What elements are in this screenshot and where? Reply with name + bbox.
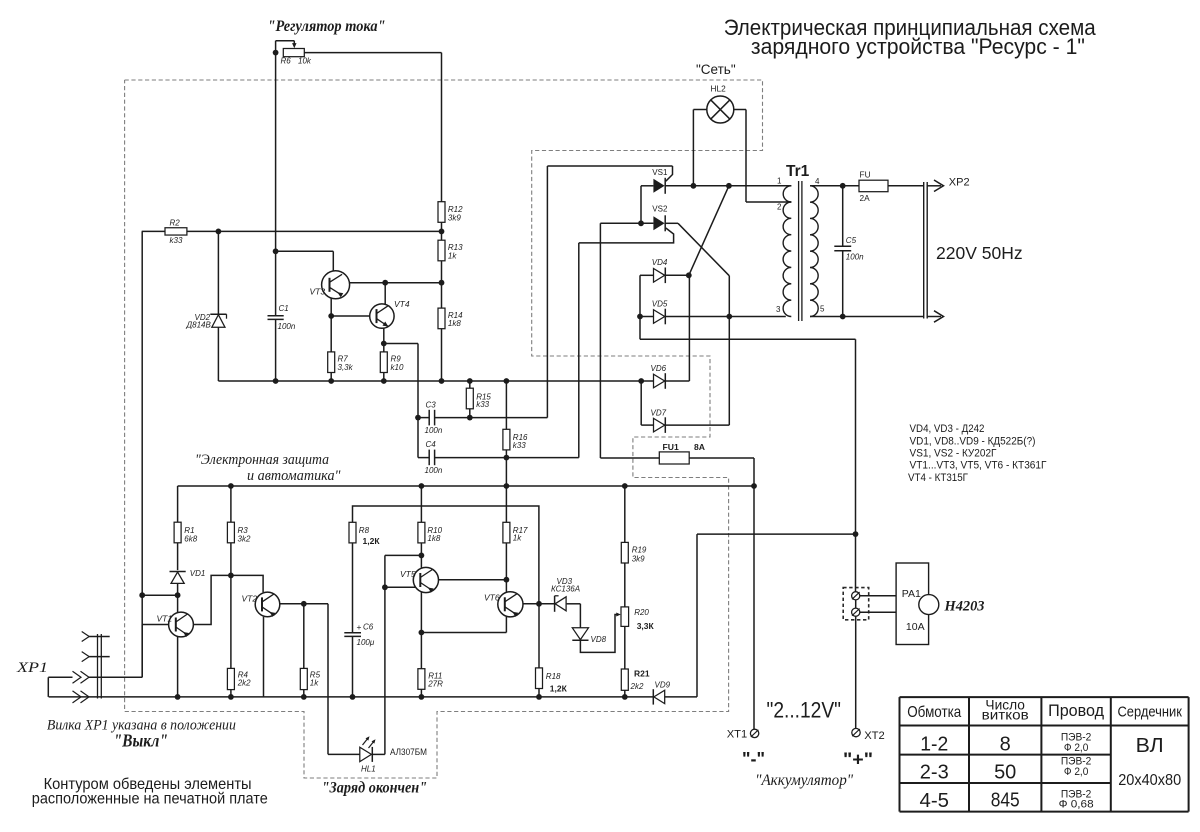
svg-text:C3: C3: [426, 400, 437, 409]
svg-text:VD5: VD5: [652, 299, 668, 308]
svg-text:Обмотка: Обмотка: [907, 704, 961, 721]
svg-text:R20: R20: [634, 608, 649, 617]
svg-text:расположенные на печатной плат: расположенные на печатной плате: [32, 790, 268, 807]
svg-text:1k: 1k: [448, 251, 457, 260]
svg-text:VT3: VT3: [310, 287, 326, 297]
svg-text:2-3: 2-3: [920, 762, 949, 784]
svg-text:3,3k: 3,3k: [338, 363, 354, 372]
svg-text:1,2К: 1,2К: [363, 536, 381, 546]
svg-text:VD4: VD4: [652, 258, 668, 267]
svg-text:1k8: 1k8: [448, 319, 461, 328]
svg-text:VT4: VT4: [394, 299, 410, 309]
svg-text:2k2: 2k2: [630, 682, 644, 691]
svg-text:FU1: FU1: [663, 442, 679, 452]
svg-text:VD6: VD6: [651, 364, 667, 373]
svg-text:R8: R8: [359, 526, 370, 535]
svg-text:1k: 1k: [513, 534, 522, 543]
svg-text:2: 2: [777, 203, 782, 212]
svg-text:845: 845: [991, 790, 1020, 812]
svg-text:27R: 27R: [427, 679, 443, 688]
svg-text:XP2: XP2: [949, 176, 970, 188]
svg-text:VS1, VS2 - КУ202Г: VS1, VS2 - КУ202Г: [910, 448, 997, 460]
svg-text:"Аккумулятор": "Аккумулятор": [755, 772, 853, 789]
svg-text:VD1: VD1: [190, 569, 206, 578]
svg-text:HL1: HL1: [361, 765, 376, 774]
svg-text:АЛ307БМ: АЛ307БМ: [390, 747, 427, 757]
svg-text:VT2: VT2: [242, 594, 258, 604]
svg-text:10k: 10k: [298, 57, 312, 66]
svg-text:R18: R18: [546, 672, 561, 681]
svg-text:"Заряд окончен": "Заряд окончен": [322, 779, 428, 796]
svg-text:VD7: VD7: [651, 409, 667, 418]
svg-text:100μ: 100μ: [357, 638, 375, 647]
svg-text:1: 1: [777, 177, 782, 186]
svg-text:k33: k33: [476, 400, 489, 409]
svg-text:C6: C6: [363, 623, 374, 632]
svg-text:Д814В: Д814В: [186, 321, 212, 330]
svg-text:50: 50: [994, 762, 1016, 784]
svg-text:"Сеть": "Сеть": [696, 62, 736, 77]
svg-text:2k2: 2k2: [237, 678, 251, 687]
svg-text:5: 5: [820, 305, 825, 314]
svg-text:Ф 0,68: Ф 0,68: [1059, 799, 1094, 811]
svg-text:VT5: VT5: [400, 569, 416, 579]
svg-text:k10: k10: [391, 363, 404, 372]
svg-text:Ф 2,0: Ф 2,0: [1064, 742, 1089, 754]
svg-text:2A: 2A: [860, 193, 871, 203]
svg-text:"Регулятор тока": "Регулятор тока": [268, 18, 386, 35]
svg-text:Сердечник: Сердечник: [1117, 704, 1182, 721]
svg-text:8A: 8A: [694, 442, 705, 452]
svg-text:10A: 10A: [906, 621, 925, 633]
svg-text:1k8: 1k8: [427, 534, 440, 543]
svg-text:3,3К: 3,3К: [637, 621, 655, 631]
svg-text:k33: k33: [513, 441, 526, 450]
svg-text:Tr1: Tr1: [786, 163, 810, 180]
svg-text:k33: k33: [170, 236, 183, 245]
svg-text:витков: витков: [982, 708, 1029, 723]
svg-text:"+": "+": [843, 749, 873, 770]
svg-text:Н4203: Н4203: [944, 599, 985, 615]
svg-text:4-5: 4-5: [920, 790, 950, 812]
svg-text:1k: 1k: [310, 678, 319, 687]
svg-text:3k9: 3k9: [632, 555, 645, 564]
svg-text:R2: R2: [170, 218, 181, 227]
svg-text:C5: C5: [846, 236, 857, 245]
svg-text:8: 8: [1000, 734, 1011, 756]
svg-text:Провод: Провод: [1048, 701, 1104, 720]
svg-text:3: 3: [776, 305, 781, 314]
svg-text:"Выкл": "Выкл": [114, 731, 169, 751]
svg-text:100n: 100n: [425, 426, 443, 435]
svg-text:C1: C1: [279, 304, 289, 313]
svg-text:ВЛ: ВЛ: [1136, 735, 1164, 757]
svg-text:XT2: XT2: [864, 730, 885, 742]
svg-text:6k8: 6k8: [184, 534, 197, 543]
svg-text:Ф 2,0: Ф 2,0: [1064, 766, 1089, 778]
svg-text:PA1: PA1: [902, 588, 921, 600]
svg-text:FU: FU: [860, 170, 871, 180]
svg-text:R6: R6: [281, 57, 292, 66]
svg-text:XP1: XP1: [16, 660, 48, 676]
svg-text:VD9: VD9: [655, 680, 671, 689]
svg-text:"2...12V": "2...12V": [767, 698, 842, 723]
svg-text:100n: 100n: [425, 466, 443, 475]
svg-text:VT6: VT6: [484, 593, 500, 603]
svg-text:VD1, VD8..VD9 - КД522Б(?): VD1, VD8..VD9 - КД522Б(?): [910, 435, 1036, 447]
svg-text:220V 50Hz: 220V 50Hz: [936, 243, 1023, 263]
svg-text:R21: R21: [634, 669, 650, 679]
svg-text:100n: 100n: [846, 253, 864, 262]
svg-text:XT1: XT1: [727, 728, 748, 740]
svg-text:HL2: HL2: [711, 84, 727, 94]
svg-text:R19: R19: [632, 546, 647, 555]
svg-text:КС136А: КС136А: [551, 584, 580, 593]
svg-text:C4: C4: [426, 440, 437, 449]
svg-text:VT1...VT3, VT5, VT6 - КТ361Г: VT1...VT3, VT5, VT6 - КТ361Г: [910, 460, 1047, 472]
svg-text:"-": "-": [742, 749, 765, 769]
svg-text:VT1: VT1: [157, 614, 173, 624]
svg-text:1-2: 1-2: [920, 734, 948, 756]
svg-text:3k2: 3k2: [238, 534, 251, 543]
svg-text:+: +: [357, 622, 362, 632]
svg-text:3k9: 3k9: [448, 213, 461, 222]
svg-text:1,2К: 1,2К: [550, 684, 568, 694]
svg-text:VD8: VD8: [591, 635, 607, 644]
svg-text:и автоматика": и автоматика": [247, 468, 341, 484]
svg-text:VS1: VS1: [652, 168, 668, 177]
svg-text:4: 4: [815, 177, 820, 186]
svg-text:20х40х80: 20х40х80: [1118, 772, 1181, 789]
svg-text:VS2: VS2: [652, 204, 668, 213]
svg-text:"Электронная защита: "Электронная защита: [195, 452, 329, 468]
svg-text:VT4 - КТ315Г: VT4 - КТ315Г: [908, 472, 968, 484]
svg-text:VD4, VD3 - Д242: VD4, VD3 - Д242: [910, 423, 985, 435]
svg-text:100n: 100n: [278, 322, 296, 331]
svg-text:зарядного устройства "Ресурс -: зарядного устройства "Ресурс - 1": [751, 34, 1085, 59]
